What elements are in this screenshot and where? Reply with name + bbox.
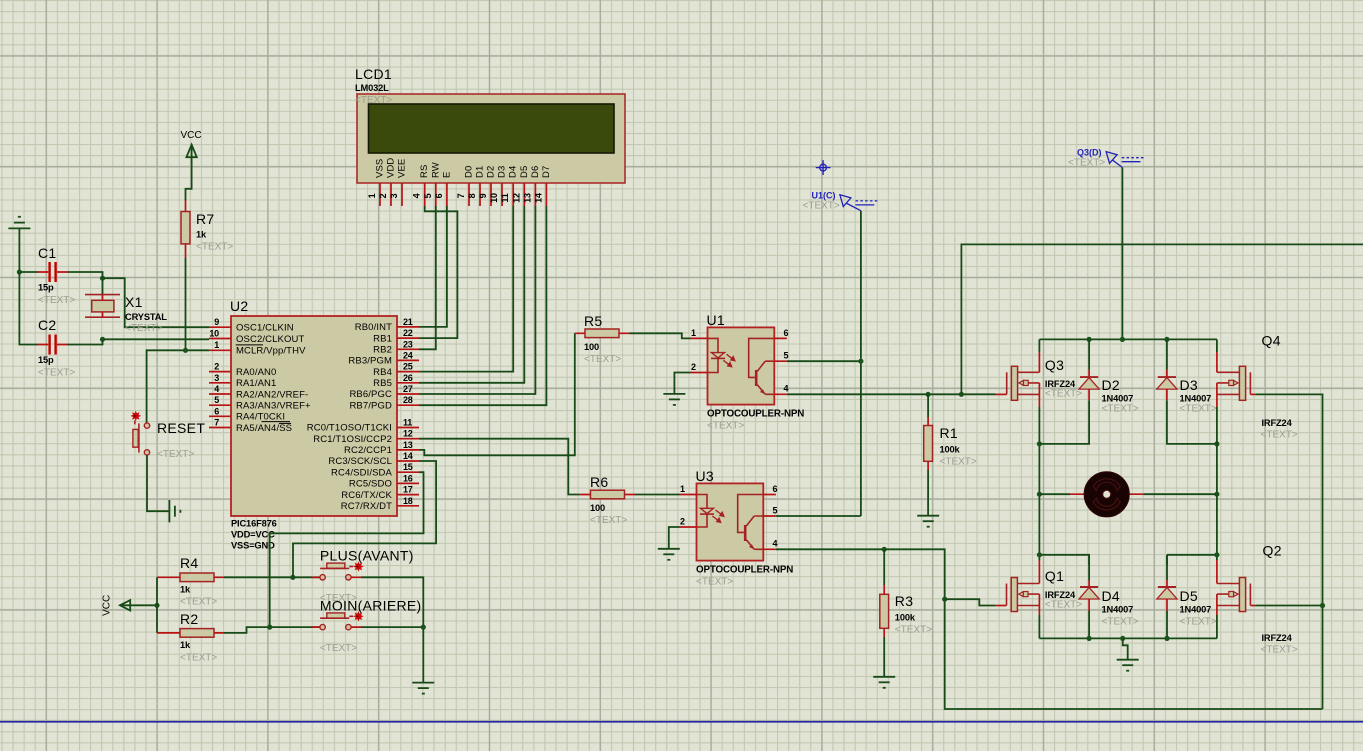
light arrows U3 [712,510,724,522]
ground (R1) [917,516,939,527]
light arrows U1 [723,354,735,366]
svg-text:9: 9 [478,193,488,198]
node C1/ground junction [17,269,22,274]
svg-text:3: 3 [389,193,399,198]
svg-text:C2: C2 [38,317,57,333]
svg-text:OSC2/CLKOUT: OSC2/CLKOUT [236,334,304,345]
svg-text:1N4007: 1N4007 [1102,605,1134,615]
svg-text:RB2: RB2 [373,345,392,356]
ground (buttons) [412,683,434,694]
svg-text:100: 100 [584,342,599,352]
svg-text:U2: U2 [230,298,249,314]
ground (U1 pin2) [663,394,685,405]
phototransistor inside U3 [738,495,764,533]
svg-text:OPTOCOUPLER-NPN: OPTOCOUPLER-NPN [707,409,804,420]
wire C1 row [19,272,102,295]
svg-text:IRFZ24: IRFZ24 [1262,633,1293,643]
transistor Q3 IRFZ24 [1007,339,1083,407]
LCD display LCD1 LM032L [355,66,625,206]
svg-text:RB5: RB5 [373,378,392,389]
svg-text:1: 1 [691,328,696,338]
wire bridge bottom rail [1039,637,1217,639]
wire MOIN right to ground rail [361,626,423,628]
svg-text:RW: RW [430,162,441,178]
svg-text:RC1/T1OSI/CCP2: RC1/T1OSI/CCP2 [313,434,392,445]
diode D2 1N4007 [1039,339,1138,444]
svg-text:D2: D2 [1102,377,1121,393]
svg-text:<TEXT>: <TEXT> [584,354,621,365]
svg-text:<TEXT>: <TEXT> [1261,430,1298,441]
wire LCD D5 to U2 RB5 [419,206,524,383]
svg-text:2: 2 [378,193,388,198]
svg-text:1k: 1k [180,585,191,595]
svg-text:4: 4 [412,193,422,198]
svg-text:VCC: VCC [181,130,202,141]
svg-text:RC5/SDO: RC5/SDO [349,479,392,490]
svg-text:<TEXT>: <TEXT> [1045,600,1082,611]
svg-text:15p: 15p [38,283,54,293]
svg-text:<TEXT>: <TEXT> [1180,404,1217,415]
wire Q1 gate branch [945,599,996,605]
svg-text:<TEXT>: <TEXT> [1102,404,1139,415]
svg-text:<TEXT>: <TEXT> [38,295,75,306]
svg-text:MCLR/Vpp/THV: MCLR/Vpp/THV [236,346,306,357]
svg-text:RB1: RB1 [373,333,392,344]
wire Q4 source down to Q2 drain [1216,407,1218,560]
svg-text:D1: D1 [475,166,486,178]
wire LCD D4 to U2 RB4 [419,206,513,372]
svg-text:RC6/TX/CK: RC6/TX/CK [341,490,392,501]
svg-text:4: 4 [784,384,789,394]
wire bottom rail to ground [1123,638,1128,659]
wire U1 pin2 to ground [674,373,690,394]
svg-text:10: 10 [489,193,499,203]
ground (top-left, rotated up) [8,217,30,272]
svg-text:10: 10 [209,329,219,339]
svg-text:RC2/CCP1: RC2/CCP1 [344,445,392,456]
svg-text:X1: X1 [125,294,143,310]
node rail/D2 [1087,337,1092,342]
wire Q3 source down to Q1 drain [1038,407,1040,560]
svg-text:C1: C1 [38,245,57,261]
svg-text:OPTOCOUPLER-NPN: OPTOCOUPLER-NPN [696,565,793,576]
svg-text:VCC: VCC [102,595,113,616]
svg-text:Q3(D): Q3(D) [1077,148,1102,158]
svg-text:VSS=GND: VSS=GND [231,541,275,551]
resistor R1 100k [924,394,977,515]
node PLUS/RC3 junction [290,575,295,580]
resistor R4 1k [157,555,224,608]
resistor R5 100 [575,313,630,365]
svg-text:U1: U1 [707,312,726,328]
svg-text:7: 7 [456,193,466,198]
voltage probe Q3(D) [1106,152,1144,168]
svg-text:28: 28 [403,395,413,405]
sheet border line [0,721,1363,723]
svg-text:1: 1 [680,484,685,494]
node R7/MCLR junction [183,348,188,353]
wire Q4 gate to right riser [1250,393,1256,395]
svg-text:R3: R3 [895,593,914,609]
wire OSC2 to U2 pin10 [103,338,210,340]
svg-text:D5: D5 [519,166,530,178]
svg-text:IRFZ24: IRFZ24 [1045,379,1076,389]
svg-text:<TEXT>: <TEXT> [696,577,733,588]
svg-text:R5: R5 [584,313,603,329]
svg-text:<TEXT>: <TEXT> [895,625,932,636]
wire U3 pin4 net to R3 and gates [776,549,1323,709]
svg-text:RC7/RX/DT: RC7/RX/DT [341,501,392,512]
svg-text:R4: R4 [180,555,199,571]
LED inside U1 [708,338,719,372]
svg-text:IRFZ24: IRFZ24 [1262,418,1293,428]
svg-text:7: 7 [214,418,219,428]
svg-text:21: 21 [403,317,413,327]
svg-text:2: 2 [214,362,219,372]
diode D3 1N4007 [1157,339,1217,444]
svg-text:IRFZ24: IRFZ24 [1045,590,1076,600]
power VCC (top) [181,130,202,200]
svg-text:RC3/SCK/SCL: RC3/SCK/SCL [328,456,392,467]
origin marker [816,160,831,175]
svg-text:6: 6 [784,328,789,338]
node Q2 drain link [1214,552,1219,557]
svg-text:12: 12 [403,429,413,439]
svg-text:14: 14 [403,451,413,461]
svg-text:4: 4 [214,384,219,394]
svg-text:RB0/INT: RB0/INT [355,322,392,333]
node D3 / Q4 source [1214,441,1219,446]
svg-text:4: 4 [773,539,778,549]
svg-text:5: 5 [214,395,219,405]
svg-text:2: 2 [680,517,685,527]
svg-text:R2: R2 [180,611,199,627]
node VCC/R4/R2 junction [154,603,159,608]
svg-text:17: 17 [403,485,413,495]
svg-text:D3: D3 [1180,377,1199,393]
svg-text:1N4007: 1N4007 [1180,605,1212,615]
svg-text:27: 27 [403,384,413,394]
wire U3 pin2 to ground [669,527,680,549]
node R1 junction [926,392,931,397]
transistor Q2 IRFZ24 [1217,543,1298,656]
wire R4 to PLUS button [224,576,320,578]
svg-text:18: 18 [403,496,413,506]
svg-text:<TEXT>: <TEXT> [803,201,840,212]
svg-text:23: 23 [403,339,413,349]
svg-text:100k: 100k [895,613,916,623]
svg-text:RB4: RB4 [373,367,392,378]
wire lower bridge top-left link [1039,555,1089,565]
svg-text:RESET: RESET [157,420,205,436]
wire LCD RS pin4 to U2 RB1 [419,206,457,338]
svg-text:14: 14 [533,193,543,203]
resistor R7 1k [181,200,233,258]
node D2 / Q3 source [1037,441,1042,446]
wire gate net riser to top-right [961,244,1363,394]
svg-text:U1(C): U1(C) [812,191,836,201]
svg-text:1: 1 [367,193,377,198]
wire MCLR row [147,350,209,423]
wire U2 RC4 pin15 to MOIN [270,472,424,627]
node U1 pin5 junction [858,359,863,364]
svg-text:13: 13 [403,440,413,450]
svg-text:VDD=VCC: VDD=VCC [231,529,275,539]
svg-text:<TEXT>: <TEXT> [38,368,75,379]
svg-text:<TEXT>: <TEXT> [320,643,357,654]
button MOIN(ARIERE) [312,598,422,654]
svg-text:24: 24 [403,350,413,360]
svg-text:RA2/AN2/VREF-: RA2/AN2/VREF- [236,389,308,400]
wire LCD E pin6 to U2 RB0 [419,206,447,327]
resistor R6 100 [579,474,635,526]
microcontroller U2 PIC16F876 [209,298,419,551]
svg-text:<TEXT>: <TEXT> [1261,645,1298,656]
svg-text:RA5/AN4/SS: RA5/AN4/SS [236,423,292,434]
wire R5 to U1 pin1 [630,333,691,338]
svg-text:15: 15 [403,462,413,472]
svg-text:CRYSTAL: CRYSTAL [125,312,167,322]
wire R6 to U3 pin1 [635,494,680,496]
svg-text:D4: D4 [508,166,519,178]
node Q1 gate branch [942,597,947,602]
wire R7 to MCLR row [185,258,187,350]
svg-text:RB6/PGC: RB6/PGC [349,389,392,400]
svg-text:RA4/T0CKI: RA4/T0CKI [236,412,285,423]
svg-text:25: 25 [403,362,413,372]
svg-text:1k: 1k [196,230,207,240]
wire LCD RW pin5 to U2 RB2 [419,206,436,349]
node crystal-top / OSC1 branch junction [100,276,105,281]
svg-text:D0: D0 [464,166,475,178]
svg-text:6: 6 [434,193,444,198]
node Q1 drain link [1037,552,1042,557]
transistor Q1 IRFZ24 [1007,568,1083,615]
svg-text:1: 1 [214,340,219,350]
wire lower bridge top-right link [1167,555,1217,565]
svg-text:Q2: Q2 [1263,543,1282,559]
crystal X1 [85,294,167,334]
svg-text:RC0/T1OSO/T1CKI: RC0/T1OSO/T1CKI [307,423,392,434]
svg-text:Q1: Q1 [1045,568,1064,584]
diode D5 1N4007 [1157,555,1217,639]
node rail/probe feed [1120,337,1125,342]
node gate net riser junction [959,392,964,397]
node crystal-bottom / OSC2 junction [100,337,105,342]
svg-text:RA3/AN3/VREF+: RA3/AN3/VREF+ [236,401,311,412]
button PLUS(AVANT) [312,548,414,605]
svg-text:Q4: Q4 [1262,333,1281,349]
svg-text:E: E [441,172,452,178]
svg-text:<TEXT>: <TEXT> [196,242,233,253]
svg-text:6: 6 [773,484,778,494]
wire C2 row [19,272,102,345]
svg-text:3: 3 [214,373,219,383]
svg-text:9: 9 [214,317,219,327]
svg-text:5: 5 [784,351,789,361]
svg-text:<TEXT>: <TEXT> [1102,617,1139,628]
wire VCC junction vertical [156,577,158,633]
svg-text:13: 13 [522,193,532,203]
svg-text:RC4/SDI/SDA: RC4/SDI/SDA [331,467,393,478]
svg-text:5: 5 [773,505,778,515]
LED inside U3 [697,495,708,528]
capacitor C1 15p [38,245,75,306]
diode D4 1N4007 [1079,555,1139,639]
svg-text:PIC16F876: PIC16F876 [231,518,277,528]
wire RESET bottom to ground [147,455,169,511]
svg-text:OSC1/CLKIN: OSC1/CLKIN [236,322,294,333]
wire U2 RC3 pin14 to PLUS [293,461,436,577]
svg-text:RA0/AN0: RA0/AN0 [236,367,276,378]
svg-text:VSS: VSS [375,159,386,178]
svg-text:RB3/PGM: RB3/PGM [348,356,392,367]
svg-text:6: 6 [214,406,219,416]
wire R2 to MOIN button [224,627,320,633]
svg-text:D5: D5 [1180,588,1199,604]
svg-text:MOIN(ARIERE): MOIN(ARIERE) [320,598,422,614]
node R3 junction [882,547,887,552]
svg-text:D7: D7 [541,166,552,178]
svg-text:11: 11 [500,193,510,202]
ground (RESET, rotated right) [169,500,180,522]
ground (bridge) [1117,660,1139,671]
resistor R3 100k [880,549,932,677]
svg-text:<TEXT>: <TEXT> [707,421,744,432]
wire U2 RC2 pin13 to R5 [419,333,575,455]
svg-text:PLUS(AVANT): PLUS(AVANT) [320,548,414,564]
svg-text:Q3: Q3 [1045,357,1064,373]
ground (R3) [873,677,895,688]
svg-text:15p: 15p [38,355,54,365]
svg-text:VEE: VEE [397,159,408,178]
node motor rail right [1214,492,1219,497]
node Q2/Q4 gate riser [1320,603,1325,608]
node bottom rail / ground [1120,636,1125,641]
node bottom rail / D4 [1087,636,1092,641]
svg-text:<TEXT>: <TEXT> [1180,617,1217,628]
wire Q1 source to bottom rail [1038,615,1040,638]
svg-text:100k: 100k [940,445,961,455]
svg-text:<TEXT>: <TEXT> [180,653,217,664]
motor [1039,472,1217,517]
svg-text:U3: U3 [696,468,715,484]
svg-text:100: 100 [590,503,605,513]
svg-text:RB7/PGD: RB7/PGD [349,400,392,411]
node buttons ground rail [421,625,426,630]
svg-text:D2: D2 [486,166,497,178]
svg-text:LM032L: LM032L [355,83,389,93]
svg-text:<TEXT>: <TEXT> [590,515,627,526]
svg-text:VDD: VDD [386,158,397,178]
capacitor C2 15p [38,317,75,379]
svg-text:LCD1: LCD1 [355,66,392,82]
wire U1 pin5 / U3 pin5 vertical with probe [776,211,861,516]
svg-text:<TEXT>: <TEXT> [180,597,217,608]
wire PLUS right to ground rail [361,577,423,682]
svg-text:1N4007: 1N4007 [1102,394,1134,404]
node rail/D3 [1164,337,1169,342]
wire LCD D7 to U2 RB7 [419,206,546,405]
svg-text:<TEXT>: <TEXT> [1068,158,1105,169]
optocoupler U1 OPTOCOUPLER-NPN [691,312,805,432]
svg-text:<TEXT>: <TEXT> [940,457,977,468]
svg-text:D6: D6 [530,166,541,178]
svg-text:D3: D3 [497,166,508,178]
node motor rail left [1037,492,1042,497]
wire OSC1 branch to U2 pin9 [103,278,210,327]
svg-text:11: 11 [403,418,412,428]
wire probe Q3(D) to H-bridge rail [1121,168,1123,340]
svg-text:<TEXT>: <TEXT> [125,323,162,334]
svg-text:<TEXT>: <TEXT> [157,449,194,460]
wire U1 pin4 to Q3 gate [787,393,996,395]
wire LCD D6 to U2 RB6 [419,206,535,394]
svg-text:<TEXT>: <TEXT> [1045,389,1082,400]
svg-text:1N4007: 1N4007 [1180,394,1212,404]
ground (U3 pin2) [658,549,680,560]
phototransistor inside U1 [749,338,775,377]
voltage probe U1(C) [840,195,878,211]
svg-text:8: 8 [467,193,477,198]
svg-text:R1: R1 [940,425,959,441]
svg-text:R7: R7 [196,211,215,227]
svg-text:26: 26 [403,373,413,383]
svg-text:D4: D4 [1102,588,1121,604]
svg-text:22: 22 [403,328,413,338]
node MOIN/RC4 junction [267,625,272,630]
svg-text:RS: RS [419,165,430,178]
wire H-bridge top rail [1039,338,1217,340]
wire U2 RC1 pin12 to R6 [419,439,579,495]
svg-text:5: 5 [423,193,433,198]
switch RESET [131,411,206,460]
node bottom rail / D5 [1164,636,1169,641]
svg-text:RA1/AN1: RA1/AN1 [236,378,276,389]
svg-text:12: 12 [511,193,521,203]
optocoupler U3 OPTOCOUPLER-NPN [680,468,794,588]
resistor R2 1k [157,611,224,664]
transistor Q4 IRFZ24 [1217,333,1298,441]
svg-text:R6: R6 [590,474,609,490]
wire Q2 source to bottom rail [1216,615,1218,638]
wire Q2 gate [1250,605,1256,607]
svg-text:2: 2 [691,362,696,372]
power VCC (left, rotated) [102,595,157,616]
svg-text:16: 16 [403,473,413,483]
svg-text:1k: 1k [180,640,191,650]
